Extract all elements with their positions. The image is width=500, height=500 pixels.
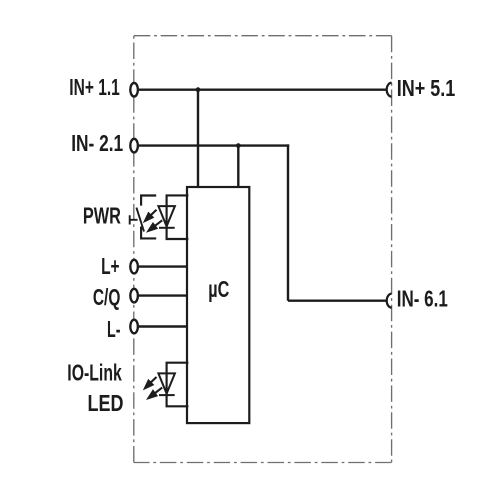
svg-text:LED: LED — [88, 390, 124, 416]
svg-text:µC: µC — [208, 276, 229, 302]
svg-text:C/Q: C/Q — [93, 284, 121, 310]
svg-text:L+: L+ — [101, 253, 120, 279]
svg-text:IO-Link: IO-Link — [67, 359, 122, 385]
svg-text:IN+ 1.1: IN+ 1.1 — [69, 74, 120, 100]
svg-text:L-: L- — [107, 316, 121, 342]
svg-text:IN+ 5.1: IN+ 5.1 — [397, 75, 456, 101]
svg-text:PWR: PWR — [83, 203, 121, 229]
svg-text:IN- 6.1: IN- 6.1 — [397, 285, 448, 311]
svg-text:IN- 2.1: IN- 2.1 — [71, 130, 123, 156]
